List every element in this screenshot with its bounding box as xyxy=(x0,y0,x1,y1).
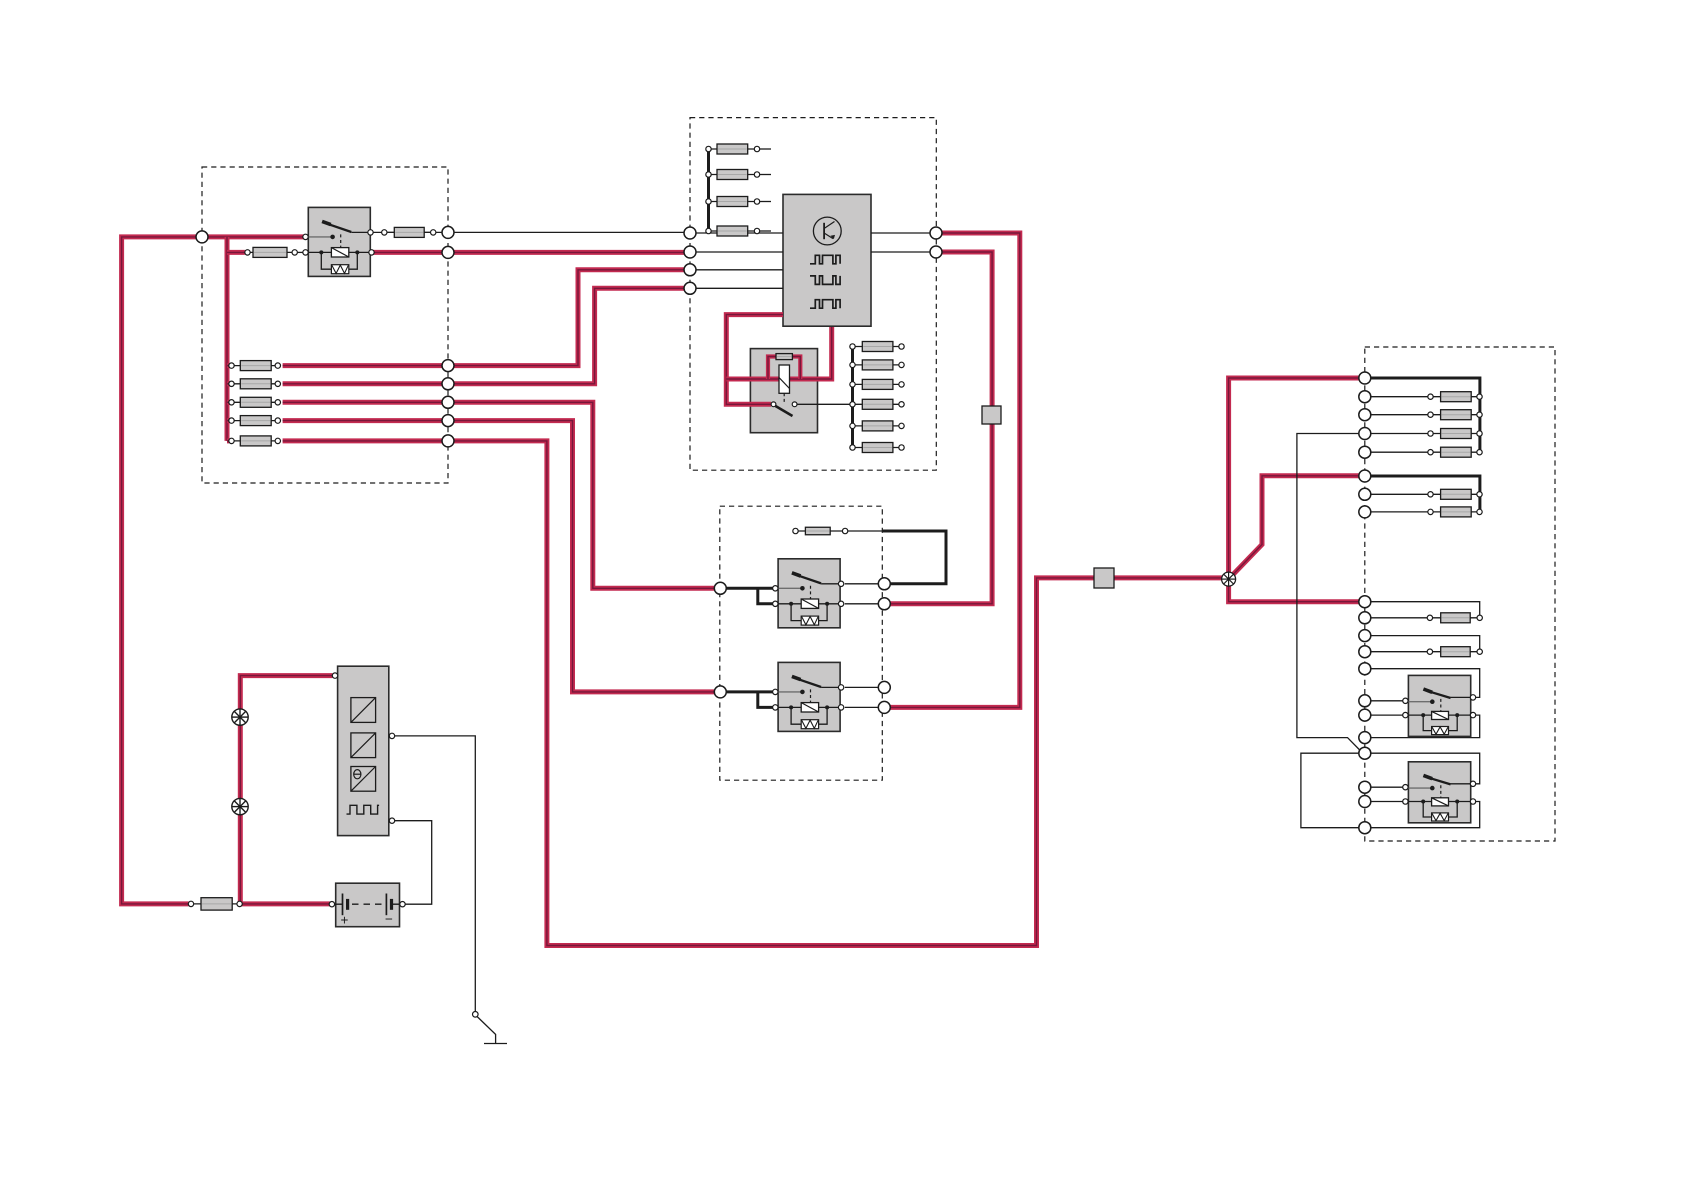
ECU U1 square-wave glyph 2 xyxy=(810,276,840,285)
wire: right unit pin6 fuse bus xyxy=(1371,476,1480,512)
fuse F28 xyxy=(1430,651,1480,653)
wire: right unit pin16 hook to relay K4 coil xyxy=(1365,715,1480,738)
ECU U1 square-wave glyph 3 xyxy=(810,300,840,309)
wire: fuse row2 to ECU pin4 xyxy=(283,288,684,384)
fuse F14 xyxy=(853,383,902,385)
wire: right unit pin9 hook to fuse xyxy=(1371,602,1480,618)
wire: battery positive feed from node A down left side xyxy=(122,237,306,904)
regulator U2 square-wave glyph xyxy=(347,805,380,814)
fuse F22 xyxy=(1431,414,1480,416)
fuse F26 xyxy=(1431,511,1480,513)
fuse F1 (K1 coil) xyxy=(248,251,295,253)
wire: right unit pin13 hook to relay K4 switch xyxy=(1365,669,1480,698)
wire: ignition fuse bus vertical xyxy=(851,347,854,448)
wire: fuse F6 output to battery xyxy=(241,901,330,906)
wire: right unit relay K4 left leads xyxy=(1365,701,1409,715)
ECU U1 body xyxy=(783,194,871,326)
dashed box: middle relay unit xyxy=(720,506,883,780)
fuse F12 xyxy=(853,346,902,348)
wire: stub fuse row2 xyxy=(227,381,229,386)
regulator pins xyxy=(332,673,337,678)
wire: star junction diagonal to right unit pin6 xyxy=(1229,476,1359,579)
wire: fuse row4 to relay K3 feed xyxy=(283,421,715,692)
right unit fuse group 3 xyxy=(1371,618,1430,652)
relay K5 pin circles xyxy=(1403,785,1408,790)
regulator U2 body xyxy=(338,666,389,835)
wire: red branch vertical in left box xyxy=(225,237,230,441)
fuse F15 xyxy=(853,403,902,405)
wire: stub to K1 coil fuse xyxy=(227,250,245,255)
wire: central top fuse bus vertical xyxy=(707,149,710,233)
fuse F2 (K1 output) xyxy=(384,231,433,233)
wire: loop pin20 to pin17 xyxy=(1301,753,1359,828)
battery G1 plates xyxy=(333,903,343,905)
fuse F13 xyxy=(853,364,902,366)
wire: relay K3 feed from connector xyxy=(727,692,776,708)
wire: right unit relay K5 left leads xyxy=(1365,787,1409,801)
regulator U2 theta square 3 xyxy=(351,767,376,792)
fuse F18 (ignition unit internal) xyxy=(776,354,792,360)
wire: ECU pin3 lead xyxy=(690,269,783,271)
fuse F23 xyxy=(1431,433,1480,435)
relay K2 xyxy=(778,559,840,628)
wire: K1 coil output to ECU xyxy=(372,250,690,255)
fuse F5 row3 xyxy=(232,401,278,403)
lamp E2 xyxy=(232,798,248,814)
ignition switch dashed link xyxy=(783,393,785,402)
relay K1 xyxy=(308,207,370,276)
wire: pin17 hook to relay K5 switch xyxy=(1365,753,1480,784)
wire: relay K5 coil loop to pin20 xyxy=(1371,802,1480,828)
wire: long loop from pin4 to pin17 xyxy=(1297,434,1365,751)
left unit right-edge connectors xyxy=(442,226,454,238)
wire: ECU pin4 lead xyxy=(690,287,783,289)
star junction node xyxy=(1222,572,1236,586)
central unit left connectors xyxy=(684,227,696,239)
wire: lamp branch to regulator xyxy=(240,676,332,904)
wire: stub fuse row4 xyxy=(227,418,229,423)
wire: fuse row1 to ECU pin3 xyxy=(283,270,684,366)
fuse F21 xyxy=(1431,396,1480,398)
wire: right unit pin1 fuse bus xyxy=(1371,378,1480,452)
relay K4 xyxy=(1408,675,1470,736)
dashed box: left fuse/relay unit xyxy=(202,167,448,483)
wire: right unit fuse group1 leads xyxy=(1371,397,1428,453)
wire: fuse row3 to relay K2 feed xyxy=(283,402,715,588)
fuse F27 xyxy=(1430,617,1480,619)
wire: middle unit fuse loop to relay K2 xyxy=(848,530,883,532)
relay K2 pin circles xyxy=(773,586,778,591)
wire: star junction down to right unit pin9 xyxy=(1229,579,1359,602)
battery G1 body xyxy=(336,883,400,927)
fuse F24 xyxy=(1431,451,1480,453)
wire: K1 coil left lead xyxy=(295,251,309,253)
ECU U1 transistor symbol xyxy=(813,217,841,245)
wire: K1 switch output row to ECU pin1 xyxy=(371,231,784,234)
wire: ECU out1 to relay K3 coil xyxy=(890,233,1020,707)
svg-text:+: + xyxy=(341,913,349,928)
fuse F8 xyxy=(709,148,758,150)
connector splice X1 xyxy=(982,406,1001,424)
fuse F3 row1 xyxy=(232,365,278,367)
fuse F19 (middle unit) xyxy=(796,530,846,532)
fuse F20 (battery feed) xyxy=(191,903,240,905)
dashed box: central control unit xyxy=(690,118,936,471)
relay K4 pin circles xyxy=(1403,698,1408,703)
fuse F9 xyxy=(709,174,758,176)
wire: relay K2 right leads xyxy=(845,584,885,604)
wire: stub fuse row5 xyxy=(227,438,229,443)
wire: ECU right leads xyxy=(871,233,936,252)
wire: regulator pin1 to chassis switch xyxy=(392,736,475,1012)
wire: ECU pin2 lead xyxy=(690,251,783,253)
middle unit connectors xyxy=(714,582,726,594)
right unit connectors xyxy=(1359,372,1371,384)
wire: right unit pin11 hook to fuse xyxy=(1365,636,1480,652)
relay K5 xyxy=(1408,762,1470,823)
regulator U2 diode square 2 xyxy=(351,733,376,758)
relay K1 pin circles xyxy=(303,234,308,239)
dashed box: right distribution unit xyxy=(1365,347,1555,841)
wire: relay K3 right leads xyxy=(845,687,885,707)
connector splice X2 xyxy=(1094,568,1114,588)
relay K3 pin circles xyxy=(773,689,778,694)
fuse F10 xyxy=(709,201,758,203)
wire: stub fuse row3 xyxy=(227,400,229,405)
wire: right unit fuse group2 leads xyxy=(1371,494,1428,512)
ignition coil T1 primary winding rect xyxy=(779,365,790,393)
wire: ignition coil U-loop with fuse xyxy=(768,357,800,380)
fuse F11 xyxy=(709,230,758,232)
fuse F17 xyxy=(853,447,902,449)
svg-text:−: − xyxy=(385,912,393,927)
fuse F7 row5 xyxy=(232,440,278,442)
central unit right connectors xyxy=(930,227,942,239)
relay K3 xyxy=(778,662,840,731)
wire: regulator pin2 to battery negative xyxy=(392,821,432,905)
ECU U1 square-wave glyph 1 xyxy=(810,255,840,264)
ignition switch arm xyxy=(776,406,793,416)
wire: ignition fixed contact to fuse bus xyxy=(795,403,853,405)
lamp E1 xyxy=(232,709,248,725)
node A (left unit feed) xyxy=(196,231,208,243)
fuse F16 xyxy=(853,425,902,427)
wire: star junction up to right unit pin1 xyxy=(1229,378,1359,579)
wire: stub fuse row1 xyxy=(227,363,229,368)
wire: ECU out2 to relay K2 coil xyxy=(890,252,992,604)
battery pins xyxy=(329,902,334,907)
fuse F4 row2 xyxy=(232,383,278,385)
wire: relay K2 feed from connector xyxy=(727,588,776,604)
wire: chassis switch and ground xyxy=(473,1012,479,1018)
fuse F25 xyxy=(1431,493,1480,495)
wire: ECU left loop to ignition switch xyxy=(726,315,783,405)
fuse F6 row4 xyxy=(232,420,278,422)
regulator U2 diode square 1 xyxy=(351,698,376,723)
wire: fuse row5 long route to star junction xyxy=(283,441,1226,946)
wire: ECU bottom to ignition coil primary xyxy=(726,327,831,379)
ignition coil unit T1 body xyxy=(750,349,817,433)
